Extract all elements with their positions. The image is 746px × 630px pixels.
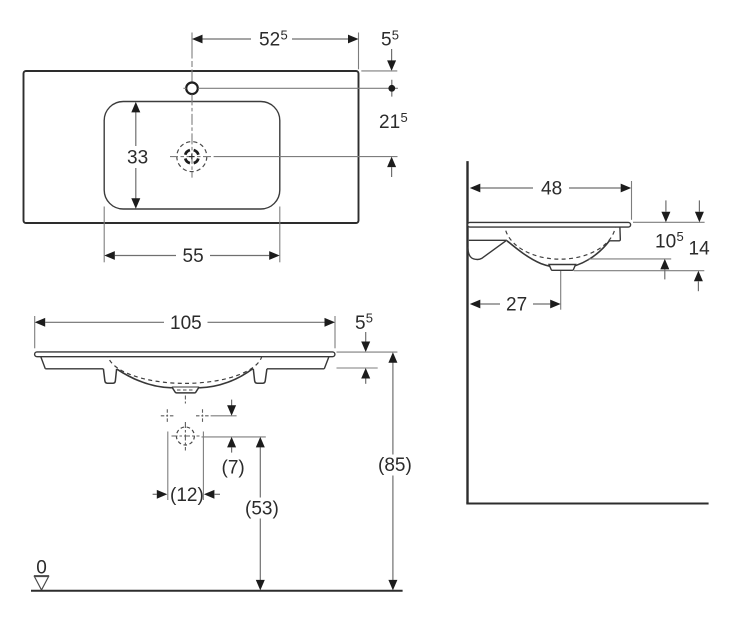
svg-text:55: 55 [183, 246, 204, 267]
dimension (12) extension lines [168, 432, 204, 501]
dimension 5.5 (front) up arrow [361, 368, 370, 379]
drain fitting hidden dashes (front view) [177, 389, 194, 391]
dimension 14 lower stem [697, 281, 699, 291]
faucet hole centerline vertical [191, 33, 193, 83]
svg-text:5: 5 [355, 313, 366, 334]
rim bottom extension line [337, 367, 378, 369]
dimension (7) upper stem [231, 400, 233, 406]
dimension (85) line [392, 363, 394, 581]
svg-text:5: 5 [677, 229, 684, 244]
dimension 55 extension lines [104, 207, 280, 263]
svg-text:5: 5 [401, 110, 408, 125]
dimension 55 line [115, 255, 269, 257]
drain fitting top line (front view) [172, 386, 199, 388]
dimension 21.5 arrow stem [391, 167, 393, 177]
dimension 33 arrows [131, 102, 140, 209]
dimension 27 line [480, 303, 550, 305]
dot marker ticks [391, 80, 393, 97]
svg-text:(85): (85) [378, 455, 412, 476]
dimension 27 arrows [470, 300, 561, 309]
svg-text:10: 10 [655, 231, 676, 252]
dimension 52.5 arrows [192, 35, 359, 44]
bowl depth reference line 10.5 [588, 258, 671, 260]
top view countertop outline [24, 71, 359, 223]
dimension 14 down arrow [695, 212, 704, 223]
faucet hole left tick [183, 87, 186, 89]
left leg (front view) [103, 369, 116, 383]
hidden inner bowl dashed (side view) [505, 223, 616, 259]
wall bracket (side view) [468, 241, 506, 260]
dimension 5.5 (front) down arrow [361, 342, 370, 353]
svg-text:(7): (7) [222, 458, 245, 479]
dimension 10.5 up arrow [660, 259, 669, 270]
svg-text:14: 14 [689, 238, 711, 259]
dimension (7) lower stem [231, 447, 233, 452]
apron front face (side view) [609, 227, 620, 241]
drain fitting (front view) [172, 387, 199, 393]
svg-text:27: 27 [506, 295, 527, 316]
floor line (front view) [31, 590, 403, 592]
bowl outer curve (side view) [507, 241, 610, 268]
fixing hole cross right (front view) [196, 409, 209, 422]
dimension 33 line [135, 112, 137, 199]
dimension 48 arrows [470, 184, 631, 193]
dimension 52.5 extension line right [358, 33, 360, 70]
dimension 5.5 (top) arrow stem [391, 49, 393, 61]
dimension 5.5 (top) down arrow [387, 60, 396, 71]
datum underline [34, 575, 49, 577]
svg-text:5: 5 [381, 30, 392, 51]
drain cross center ticks [189, 154, 195, 160]
dimension 10.5 lower stem [664, 269, 666, 279]
dimension 105 line [45, 321, 324, 323]
bowl outer curve (front view) [117, 369, 253, 388]
dimension 14 upper stem [698, 200, 700, 212]
drain cross dashed circle [177, 142, 207, 172]
dimension 5.5 (front) lower stem [365, 379, 367, 384]
dimension 48 extension line [631, 181, 633, 220]
rim top reference line (side view) [633, 221, 705, 223]
dimension (85) arrows [388, 352, 397, 590]
faucet hole line to right [198, 87, 398, 89]
drain line to right (21.5 reference) [214, 156, 398, 158]
rim top extension line [337, 351, 398, 353]
dimension 105 arrows [35, 318, 335, 327]
dimension 10.5 down arrow [661, 212, 670, 223]
floor line (side view) [466, 503, 708, 505]
svg-text:(12): (12) [170, 485, 204, 506]
svg-text:21: 21 [379, 112, 400, 133]
right leg (front view) [253, 369, 267, 383]
dimension (53) line [259, 447, 261, 580]
drain height reference line [202, 436, 266, 438]
dimension (12) arrows and tails [157, 490, 215, 499]
washbasin slab (side view) [468, 222, 631, 227]
svg-text:52: 52 [259, 30, 280, 51]
washbasin slab (front view) [35, 352, 335, 357]
dot marker at faucet line [388, 85, 395, 92]
svg-text:48: 48 [541, 179, 562, 200]
drain cross bold arcs [185, 150, 198, 163]
countertop top edge extension right [361, 70, 397, 72]
slab underside line (side view) [469, 239, 507, 241]
dimension (7) up arrow [227, 437, 236, 448]
svg-text:5: 5 [281, 27, 288, 42]
dimension 55 arrows [104, 251, 279, 260]
top view basin inner outline [104, 102, 280, 210]
centerline from faucet to drain cross [191, 94, 193, 177]
dimension 21.5 up arrow [387, 157, 396, 168]
dimension 14 up arrow [694, 271, 703, 282]
svg-text:5: 5 [366, 311, 373, 326]
wall line [466, 161, 468, 503]
svg-text:33: 33 [127, 148, 148, 169]
drain cross horizontal centerline [170, 156, 212, 158]
faucet hole circle [186, 83, 198, 95]
fixing hole cross left (front view) [161, 409, 174, 422]
fixing holes reference line [211, 415, 237, 417]
washbasin apron outline (front view) [41, 357, 329, 369]
drain hidden circle (front view) [176, 427, 194, 445]
dimension 105 extension lines [35, 316, 335, 348]
datum triangle [34, 577, 48, 591]
drain circle crosshair (front view) [172, 396, 200, 451]
svg-text:5: 5 [392, 27, 399, 42]
svg-text:105: 105 [170, 313, 202, 334]
dimension 52.5 line [202, 38, 349, 40]
basin hidden inner bowl dashed ellipse (front) [108, 353, 263, 383]
dimension 10.5 upper stem [665, 200, 667, 212]
drain bottom reference line 14 [574, 270, 705, 272]
dimension (7) down arrow [227, 405, 236, 416]
drain fitting (side view) [549, 265, 576, 271]
svg-text:(53): (53) [245, 498, 279, 519]
dimension 5.5 (front) arrow stem [365, 332, 367, 342]
dimension 48 line [480, 187, 620, 189]
drain centerline (side view) [560, 271, 562, 310]
dimension (53) arrows [256, 437, 265, 591]
